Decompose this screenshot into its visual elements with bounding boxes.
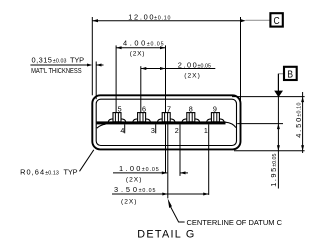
svg-text:0,315: 0,315 bbox=[32, 56, 52, 65]
extension line pin1 bbox=[208, 124, 210, 194]
pin number 6 bbox=[142, 104, 147, 113]
leader to datum C bbox=[246, 19, 270, 21]
svg-text:4.00: 4.00 bbox=[123, 39, 145, 48]
bottom edge extension line (right) bbox=[234, 150, 305, 152]
svg-text:±0.05: ±0.05 bbox=[147, 41, 164, 47]
dimension 12.00 line bbox=[92, 20, 240, 22]
svg-text:C: C bbox=[274, 16, 281, 27]
extension line pin2 bbox=[179, 124, 181, 175]
svg-text:12.00: 12.00 bbox=[128, 13, 153, 22]
1.95 up arrow bbox=[277, 124, 280, 130]
pin number 5 bbox=[117, 104, 122, 113]
outer shell of connector bbox=[92, 95, 240, 149]
4.50 down arrow bbox=[301, 145, 304, 151]
svg-text:B: B bbox=[287, 70, 293, 81]
12.00 dim extension line right bbox=[240, 17, 242, 104]
dimension 1.00 line with text underline bbox=[113, 172, 167, 174]
tongue right end curve bbox=[225, 122, 236, 127]
svg-text:±0.13: ±0.13 bbox=[45, 171, 59, 177]
12.00 dim extension line left bbox=[91, 17, 93, 95]
12.00 left arrow bbox=[92, 19, 98, 22]
datum C box bbox=[270, 13, 282, 26]
datum B triangle bbox=[274, 91, 283, 98]
svg-text:TYP: TYP bbox=[70, 56, 84, 65]
2.00 left arrow bbox=[141, 67, 147, 70]
centerline of datum C bbox=[167, 107, 169, 198]
top edge extension line (right) bbox=[232, 96, 305, 98]
datum B box bbox=[284, 67, 297, 80]
extension line pin7 below tongue bbox=[165, 124, 167, 172]
svg-text:4.50: 4.50 bbox=[294, 118, 303, 138]
svg-text:7: 7 bbox=[167, 104, 171, 113]
svg-text:±0.05: ±0.05 bbox=[142, 167, 159, 173]
svg-text:DETAIL G: DETAIL G bbox=[137, 229, 194, 241]
3.50 right arrow bbox=[203, 193, 209, 196]
tongue left end curve bbox=[97, 124, 106, 128]
R0.64 leader line bbox=[80, 150, 94, 172]
svg-text:6: 6 bbox=[142, 104, 146, 113]
svg-text:±0.05: ±0.05 bbox=[198, 63, 212, 69]
svg-text:±0.05: ±0.05 bbox=[139, 188, 156, 194]
1.95 down arrow bbox=[277, 145, 280, 151]
dimension 3.50 line with text underline bbox=[112, 193, 209, 195]
svg-text:(2X): (2X) bbox=[121, 199, 137, 206]
1.00 left arrow bbox=[162, 171, 168, 174]
svg-text:2: 2 bbox=[175, 126, 179, 135]
svg-text:4: 4 bbox=[120, 126, 124, 135]
0.315 right arrow with tail bbox=[96, 64, 101, 67]
svg-text:1.95: 1.95 bbox=[269, 168, 278, 187]
2.00 right arrow bbox=[160, 67, 166, 70]
tongue top extension line (right, for 1.95 dim) bbox=[237, 123, 283, 125]
4.50 up arrow bbox=[301, 97, 304, 103]
pin 8 contact bbox=[182, 113, 199, 122]
extension line pin5 bbox=[115, 45, 117, 121]
svg-text:±0.10: ±0.10 bbox=[297, 103, 303, 117]
3.50 left arrow bbox=[162, 193, 168, 196]
svg-text:±0.03: ±0.03 bbox=[53, 58, 67, 64]
svg-text:R0,64: R0,64 bbox=[20, 168, 44, 177]
svg-text:(2X): (2X) bbox=[184, 73, 200, 80]
lower contact tick 4 bbox=[124, 124, 126, 133]
svg-text:3: 3 bbox=[151, 126, 155, 135]
svg-text:1: 1 bbox=[204, 126, 208, 135]
dimension 2.00 line with text underline bbox=[141, 68, 216, 70]
1.00 right tail line bbox=[180, 172, 188, 174]
centerline note leader arrow bbox=[168, 199, 172, 209]
4.00 right arrow bbox=[160, 46, 166, 49]
svg-text:5: 5 bbox=[118, 104, 122, 113]
svg-text:MAT'L THICKNESS: MAT'L THICKNESS bbox=[31, 66, 82, 75]
0.315 left arrow bbox=[87, 64, 92, 67]
svg-text:TYP: TYP bbox=[64, 168, 78, 177]
dimension 4.00 line bbox=[116, 47, 165, 49]
svg-text:CENTERLINE OF DATUM C: CENTERLINE OF DATUM C bbox=[187, 218, 283, 227]
svg-text:(2X): (2X) bbox=[126, 177, 141, 184]
pin 5 contact bbox=[108, 113, 125, 122]
svg-text:±0.05: ±0.05 bbox=[272, 154, 278, 167]
extension line pin6 bbox=[140, 66, 142, 122]
pin number 7 bbox=[167, 104, 172, 113]
0.315 leader underline bbox=[30, 64, 87, 66]
12.00 right arrow bbox=[241, 19, 246, 22]
svg-text:9: 9 bbox=[213, 104, 217, 113]
extension line pin7 bbox=[165, 45, 167, 121]
inner shell of connector bbox=[96, 99, 236, 145]
tongue (contact blade) bbox=[97, 121, 226, 124]
centerline note leader line bbox=[170, 206, 185, 223]
svg-text:1.00: 1.00 bbox=[119, 164, 140, 173]
svg-text:3.50: 3.50 bbox=[114, 185, 137, 194]
lower contact tick 3 bbox=[155, 124, 157, 133]
inner wall extension line bbox=[95, 62, 97, 100]
svg-text:±0.10: ±0.10 bbox=[154, 16, 170, 22]
0.315 right tail line bbox=[96, 64, 103, 66]
svg-text:2.00: 2.00 bbox=[178, 61, 197, 70]
4.50 dimension line vertical bbox=[302, 92, 304, 153]
pin 9 contact bbox=[207, 113, 224, 122]
svg-text:8: 8 bbox=[189, 104, 193, 113]
datum B leader gray bbox=[278, 73, 284, 75]
svg-text:(2X): (2X) bbox=[130, 51, 145, 58]
4.00 left arrow bbox=[116, 46, 122, 49]
1.95 dimension line vertical bbox=[277, 97, 279, 189]
pin 6 contact bbox=[133, 113, 150, 122]
pin 7 contact bbox=[158, 113, 175, 122]
1.00 right arrow bbox=[180, 171, 186, 174]
datum B leader vertical bbox=[277, 74, 279, 91]
